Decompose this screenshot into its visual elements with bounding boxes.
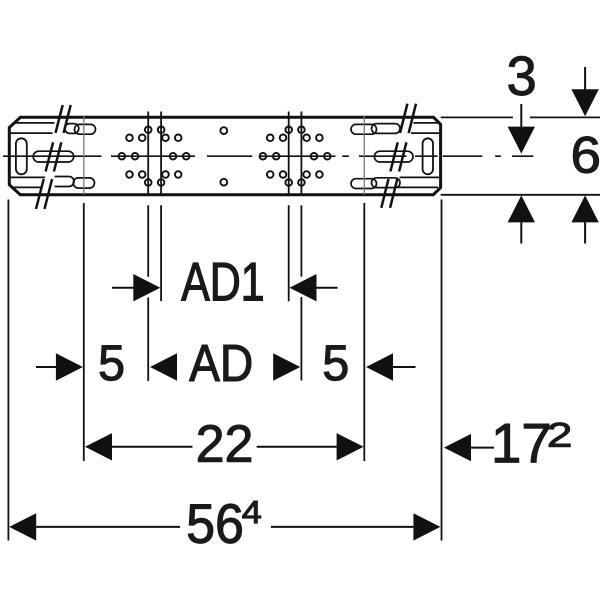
dim AD right arrow bbox=[273, 353, 300, 380]
dim AD1 left arrow bbox=[112, 274, 160, 301]
dim 3 label bbox=[509, 56, 535, 95]
dim 3 down arrow bbox=[508, 104, 535, 154]
break line right A bbox=[381, 104, 407, 208]
top edge extension line bbox=[441, 116, 600, 118]
dim 5 right outside arrow bbox=[366, 353, 416, 380]
dim 56 label bbox=[188, 504, 241, 543]
dim 22 label bbox=[198, 425, 251, 462]
slot middle left bbox=[33, 151, 73, 162]
break line right B bbox=[390, 104, 416, 208]
dim 56 left arrow bbox=[9, 513, 180, 540]
extension line x84 (grey through plate) bbox=[83, 116, 85, 195]
dim 3 up arrow bbox=[508, 195, 535, 243]
fold line top 1 bbox=[14, 122, 438, 124]
hole center top bbox=[220, 127, 227, 134]
dim 22 left arrow bbox=[85, 433, 193, 460]
hole center bottom bbox=[220, 179, 227, 186]
fold line bottom 1 bbox=[11, 176, 440, 178]
dim AD1 right arrow bbox=[290, 274, 338, 301]
dim 6 up arrow bbox=[571, 195, 598, 243]
bottom edge extension line bbox=[441, 194, 600, 196]
dim 5 left outside arrow bbox=[36, 353, 83, 380]
vertical slot left end bbox=[16, 138, 27, 174]
fold line top 2 bbox=[11, 132, 440, 134]
hole cluster right bbox=[260, 127, 331, 186]
dim 22 right arrow bbox=[257, 433, 364, 460]
dim AD left arrow bbox=[150, 353, 177, 380]
centerline (dash-dot axis) bbox=[3, 155, 533, 157]
dim 56 superscript 4 bbox=[243, 501, 261, 523]
extension line x441 right bbox=[441, 200, 443, 541]
break line left B bbox=[45, 105, 71, 209]
vertical slot right end bbox=[423, 138, 433, 174]
break line left A bbox=[36, 105, 63, 209]
extension line x364 (grey through plate) bbox=[363, 116, 365, 195]
extension lines AD1/AD through plate bbox=[148, 112, 301, 382]
slot chain bottom right bbox=[351, 179, 377, 189]
slot chain top right bbox=[351, 124, 377, 134]
dim 17 label bbox=[495, 424, 549, 462]
dim 5 right label bbox=[324, 346, 347, 381]
plate outline bbox=[9, 117, 440, 194]
slot chain bottom left bbox=[55, 177, 74, 187]
dim 5 left label bbox=[100, 346, 123, 381]
dim 6 label bbox=[573, 137, 598, 174]
dim 56 right arrow bbox=[271, 513, 441, 540]
dim 17 superscript 2 bbox=[549, 423, 570, 447]
dim AD1 label bbox=[181, 263, 262, 301]
extension line x8 left bbox=[7, 200, 9, 541]
slot chain top left bbox=[65, 124, 79, 134]
extension line x84 below plate bbox=[83, 203, 85, 461]
slot middle right bbox=[374, 151, 413, 162]
dim 6 down arrow bbox=[571, 67, 598, 116]
fold line bottom 2 bbox=[13, 186, 439, 188]
extension line x364 below plate bbox=[363, 203, 365, 461]
dim AD label bbox=[189, 345, 251, 381]
dim 17 arrow bbox=[444, 434, 494, 461]
hole cluster left bbox=[119, 127, 190, 186]
